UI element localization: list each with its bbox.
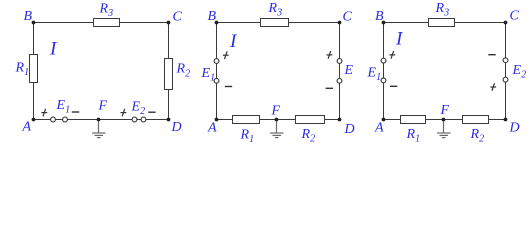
svg-text:E1: E1	[56, 98, 71, 116]
svg-text:B: B	[375, 9, 384, 24]
wire left B to R1	[33, 23, 35, 55]
battery E1 gap wire	[216, 63, 218, 78]
wire right C to E	[339, 23, 341, 59]
wire bottom E2 to D	[146, 119, 169, 121]
wire top-right R3 to C	[455, 22, 506, 24]
svg-text:B: B	[24, 9, 33, 24]
node D	[504, 118, 508, 122]
wire bottom R1 through F to R2	[426, 119, 463, 121]
svg-text:A: A	[207, 121, 217, 136]
minus sign of E1	[390, 85, 397, 87]
resistor R1	[233, 116, 260, 124]
svg-text:E: E	[344, 63, 354, 78]
wire right E2 to D	[505, 82, 507, 120]
resistor R2	[296, 116, 325, 124]
node F	[442, 118, 446, 122]
svg-text:C: C	[510, 9, 520, 24]
svg-text:A: A	[374, 121, 384, 136]
battery E1 gap wire	[383, 63, 385, 78]
wire bottom R2 to D	[325, 119, 340, 121]
svg-text:I: I	[49, 39, 58, 60]
wire bottom E1 through F to E2	[67, 119, 132, 121]
ground at F	[437, 120, 451, 138]
node D	[338, 118, 342, 122]
wire top-left B to R3	[384, 22, 429, 24]
node F	[97, 118, 101, 122]
battery E2 terminal right	[141, 117, 146, 122]
svg-text:E1: E1	[201, 66, 216, 84]
plus sign of E	[327, 51, 333, 59]
svg-text:I: I	[395, 29, 404, 50]
node B	[382, 21, 386, 25]
wire bottom A to R1	[217, 119, 233, 121]
battery E1 terminal bottom	[381, 78, 386, 83]
wire top-right R3 to C	[289, 22, 340, 24]
plus sign of E2	[490, 83, 496, 91]
node D	[167, 118, 171, 122]
battery E1 terminal top	[214, 59, 219, 64]
node C	[167, 21, 171, 25]
svg-text:F: F	[440, 103, 450, 118]
svg-text:R1: R1	[15, 61, 30, 79]
battery E1 terminal left	[51, 117, 56, 122]
plus sign of E2	[121, 109, 127, 117]
resistor R1	[401, 116, 426, 124]
resistor R1	[30, 55, 38, 83]
node A	[215, 118, 219, 122]
resistor R2	[165, 59, 173, 90]
svg-text:R2: R2	[301, 127, 316, 145]
wire right R2 to D	[168, 90, 170, 120]
battery E terminal bottom	[337, 78, 342, 83]
battery E1 terminal bottom	[214, 78, 219, 83]
battery E1 terminal top	[381, 58, 386, 63]
plus sign of E1	[223, 51, 229, 59]
wire right C to R2	[168, 23, 170, 59]
svg-text:C: C	[173, 10, 183, 25]
svg-text:R2: R2	[176, 62, 191, 80]
battery E2 terminal top	[503, 58, 508, 63]
minus sign of E1	[225, 86, 232, 88]
plus sign of E1	[389, 51, 395, 59]
wire left R1 to A	[33, 83, 35, 120]
resistor R3	[94, 19, 120, 27]
resistor R3	[429, 19, 455, 27]
svg-text:F: F	[98, 99, 108, 114]
node A	[382, 118, 386, 122]
svg-text:B: B	[208, 9, 217, 24]
ground at F	[92, 120, 106, 138]
wire bottom A to R1	[384, 119, 401, 121]
battery E2 terminal gap wire	[137, 119, 141, 121]
svg-text:E2: E2	[131, 100, 146, 118]
battery E2 terminal bottom	[503, 77, 508, 82]
resistor R3	[261, 19, 289, 27]
minus sign of E	[326, 87, 333, 89]
wire left B to E1	[383, 23, 385, 59]
svg-text:I: I	[229, 31, 238, 52]
wire top-right R3 to C	[120, 22, 169, 24]
minus sign of E2	[148, 111, 155, 113]
wire right E to D	[339, 83, 341, 119]
wire top-left B to R3	[34, 22, 94, 24]
node C	[504, 21, 508, 25]
svg-text:R3: R3	[268, 1, 283, 19]
wire left B to E1	[216, 23, 218, 59]
battery E1 terminal right	[63, 117, 68, 122]
svg-text:R2: R2	[470, 127, 485, 145]
wire bottom A to E1	[34, 119, 51, 121]
svg-text:E2: E2	[512, 63, 527, 81]
wire left E1 to A	[216, 83, 218, 119]
node B	[32, 21, 36, 25]
svg-text:R1: R1	[240, 128, 255, 146]
wire right C to E2	[505, 23, 507, 58]
battery E1 terminal gap wire	[55, 119, 62, 121]
wire bottom R2 to D	[489, 119, 506, 121]
node B	[215, 21, 219, 25]
minus sign of E2	[488, 54, 495, 56]
battery E2 terminal left	[132, 117, 137, 122]
svg-text:A: A	[22, 120, 32, 135]
svg-text:R3: R3	[99, 2, 114, 20]
svg-text:D: D	[344, 122, 355, 137]
battery E gap wire	[339, 63, 341, 78]
wire bottom R1 through F to R2	[260, 119, 296, 121]
svg-text:D: D	[509, 121, 520, 136]
svg-text:E1: E1	[367, 66, 382, 84]
svg-text:F: F	[271, 104, 281, 119]
svg-text:R1: R1	[406, 127, 421, 145]
node F	[275, 118, 279, 122]
ground at F	[270, 120, 284, 138]
battery E terminal top	[337, 59, 342, 64]
node C	[338, 21, 342, 25]
resistor R2	[463, 116, 489, 124]
svg-text:R3: R3	[435, 1, 450, 19]
wire top-left B to R3	[217, 22, 261, 24]
wire left E1 to A	[383, 83, 385, 120]
node A	[32, 118, 36, 122]
svg-text:D: D	[171, 120, 182, 135]
svg-text:C: C	[343, 10, 353, 25]
plus sign of E1	[41, 109, 47, 117]
battery E2 gap wire	[505, 63, 507, 78]
minus sign of E1	[72, 111, 79, 113]
